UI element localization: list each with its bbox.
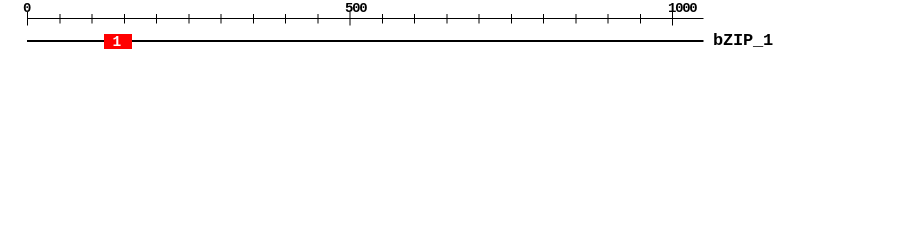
major tick 1000 [672, 12, 674, 26]
minor tick 350 [252, 14, 254, 24]
minor tick 200 [156, 14, 158, 24]
minor tick 550 [381, 14, 383, 24]
minor tick 100 [91, 14, 93, 24]
minor tick 700 [478, 14, 480, 24]
major tick 500 [349, 12, 351, 26]
minor tick 900 [607, 14, 609, 24]
domain box 1 (red) [104, 34, 132, 49]
svg-text:bZIP_1: bZIP_1 [713, 32, 773, 51]
minor tick 50 [59, 14, 61, 24]
minor tick 450 [317, 14, 319, 24]
minor tick 250 [188, 14, 190, 24]
minor tick 150 [123, 14, 125, 24]
minor tick 400 [285, 14, 287, 24]
minor tick 650 [446, 14, 448, 24]
minor tick 950 [639, 14, 641, 24]
minor tick 850 [575, 14, 577, 24]
minor tick 600 [414, 14, 416, 24]
svg-text:500: 500 [345, 1, 367, 17]
minor tick 800 [543, 14, 545, 24]
background [0, 0, 900, 58]
major tick 0 [27, 12, 29, 26]
minor tick 750 [510, 14, 512, 24]
minor tick 300 [220, 14, 222, 24]
svg-text:1000: 1000 [668, 1, 697, 17]
svg-text:0: 0 [23, 1, 31, 17]
ruler line [27, 18, 704, 20]
protein backbone line [27, 40, 704, 42]
